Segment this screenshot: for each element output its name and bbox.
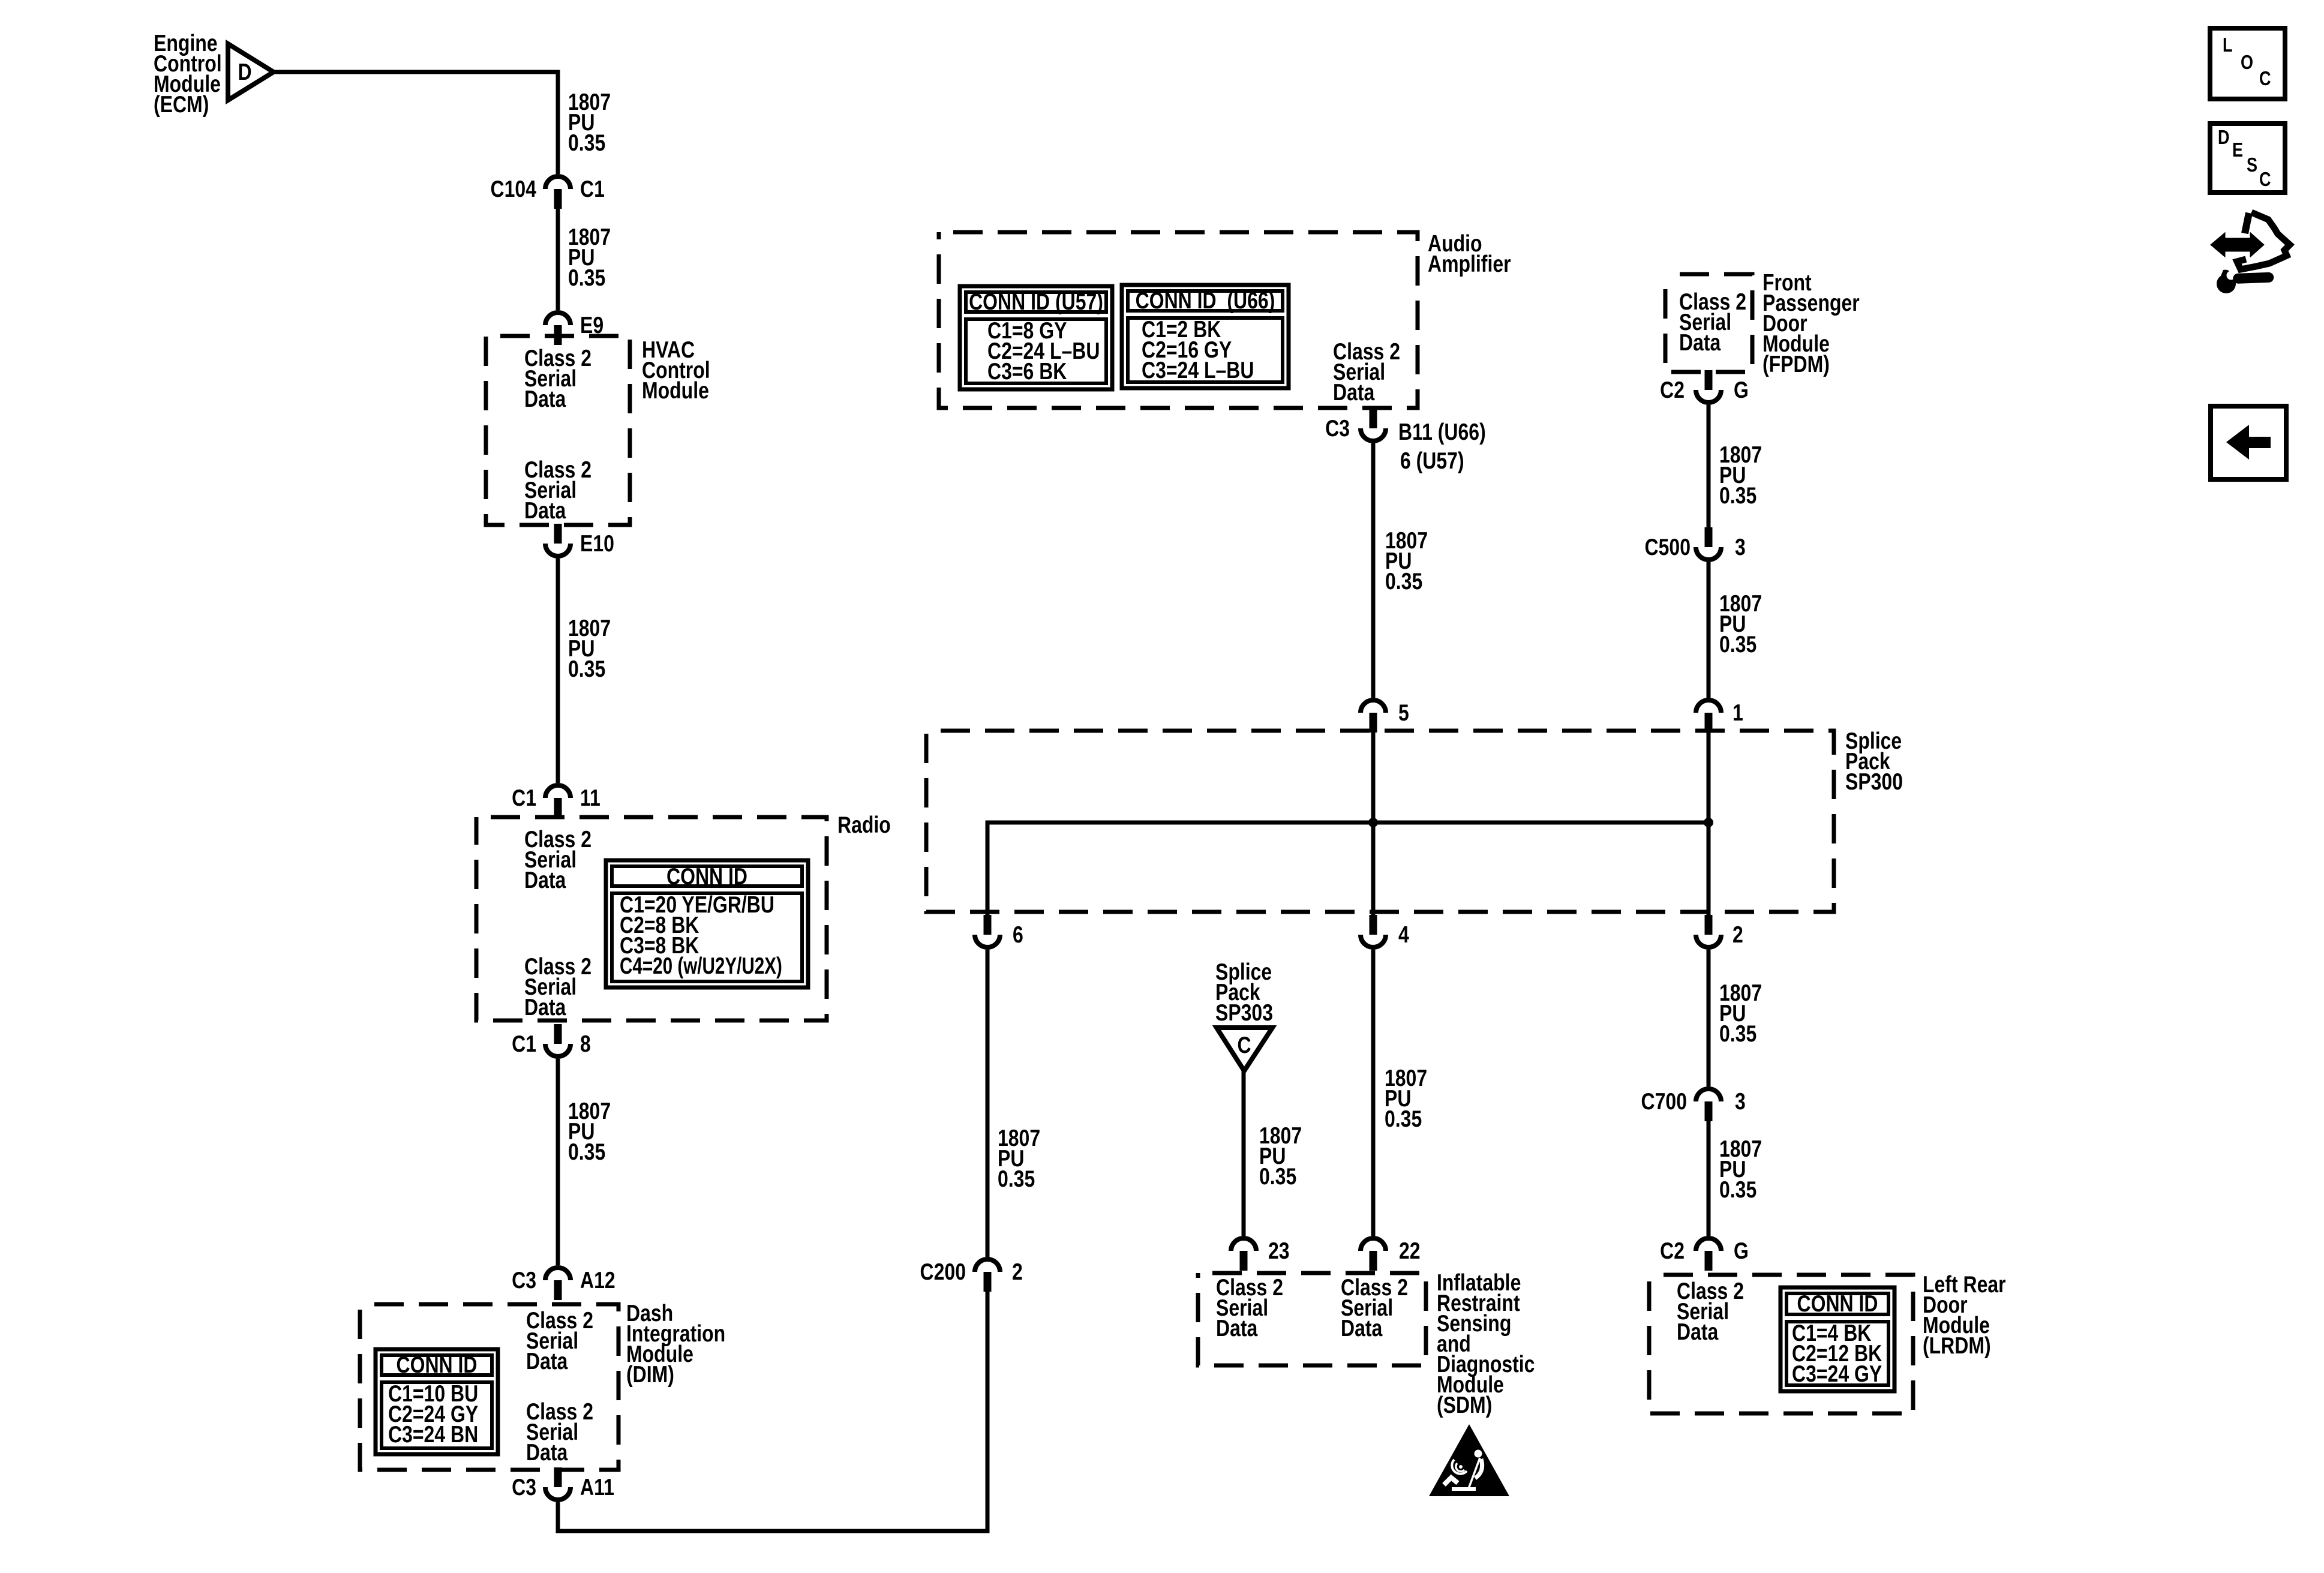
svg-text:5: 5 [1398,700,1409,726]
svg-text:CONN ID: CONN ID [397,1352,478,1378]
svg-text:C3=24 BN: C3=24 BN [388,1421,478,1448]
text wire value label 1807 PU 0.35 (ECM-C104) [568,89,611,156]
svg-text:Amplifier: Amplifier [1428,251,1511,277]
svg-text:CONN ID (U57): CONN ID (U57) [969,289,1103,315]
connector C500 pin 3 [1696,527,1721,560]
svg-text:1: 1 [1733,700,1743,726]
wire SP303 to SDM pin 23 [1242,1071,1246,1236]
connector FPDM C2 pin G [1696,370,1721,403]
text wire value label 1807 PU 0.35 (Amp-SP300) [1385,527,1428,595]
svg-text:Data: Data [1679,329,1721,356]
CONN ID table Radio CONN ID [606,860,808,987]
text HVAC Class 2 Serial Data (in) [524,345,591,412]
svg-text:0.35: 0.35 [1719,1020,1756,1047]
svg-text:C3: C3 [512,1267,536,1293]
pin label 2 [1012,1259,1023,1285]
CONN ID table LRDM CONN ID [1780,1287,1894,1391]
svg-text:L: L [2223,35,2233,56]
pin label 8 [580,1031,591,1057]
svg-text:Data: Data [524,497,566,524]
svg-text:C3=6 BK: C3=6 BK [987,358,1067,385]
connector SP300 pin 4 [1361,915,1386,947]
svg-text:C: C [2259,169,2271,191]
svg-text:0.35: 0.35 [1719,1176,1756,1203]
connector Radio C1 pin 11 [545,785,571,818]
DESC icon box [2210,124,2285,193]
pin label 23 [1268,1238,1290,1264]
module box Splice Pack SP300 (dashed) [926,731,1834,912]
svg-text:3: 3 [1735,1088,1746,1115]
svg-text:Data: Data [1341,1315,1383,1341]
svg-text:C700: C700 [1641,1088,1687,1115]
pin label 3 [1735,534,1746,560]
svg-text:A11: A11 [580,1474,614,1500]
svg-text:C1: C1 [580,176,605,202]
connector DIM C3 pin A11 [545,1467,571,1500]
svg-text:D: D [2218,127,2230,149]
text wire value label 1807 PU 0.35 (FPDM-C500) [1719,442,1762,509]
svg-text:2: 2 [1012,1259,1023,1285]
svg-text:C: C [2259,68,2271,90]
svg-text:3: 3 [1735,534,1746,560]
svg-text:E10: E10 [580,530,614,557]
pin label A11 [580,1474,614,1500]
pin label 1 [1733,700,1743,726]
back arrow icon box [2211,406,2286,479]
svg-text:Data: Data [524,994,566,1020]
svg-text:(FPDM): (FPDM) [1762,351,1830,377]
svg-text:C104: C104 [491,176,537,202]
text wire value label 1807 PU 0.35 (Radio-DIM) [568,1098,611,1165]
svg-text:0.35: 0.35 [568,130,605,156]
label C104 [491,176,537,202]
wire C200 to SP300 pin 6 [986,950,990,1257]
pin label G [1734,377,1749,403]
svg-text:0.35: 0.35 [1719,631,1756,658]
wire SP300 vertical 1-2 [1707,733,1711,915]
svg-text:0.35: 0.35 [568,1139,605,1165]
connector HVAC E10 [545,524,571,556]
svg-text:23: 23 [1268,1238,1290,1264]
text wire value label 1807 PU 0.35 (C200-SP300) [998,1125,1040,1192]
wire SP300 vertical 5-4 [1371,733,1376,915]
module box Dash Integration Module (DIM) (dashed) [360,1304,618,1470]
svg-text:G: G [1734,377,1749,403]
svg-text:0.35: 0.35 [568,265,605,291]
svg-text:0.35: 0.35 [1259,1163,1296,1190]
label C1 [512,1031,536,1057]
svg-text:C: C [1237,1032,1251,1058]
svg-text:CONN ID (U66): CONN ID (U66) [1136,287,1275,314]
wire C500 to SP300 pin 1 [1707,562,1711,698]
svg-text:SP300: SP300 [1845,769,1903,795]
connector DIM C3 pin A12 [545,1268,571,1300]
connector SDM pin 23 [1231,1238,1256,1271]
text SDM label [1437,1269,1535,1418]
wire DIM A11 to C200 (bottom run) [558,1292,987,1531]
pin label G [1734,1238,1749,1264]
svg-text:CONN ID: CONN ID [666,863,747,890]
module box Audio Amplifier (dashed) [939,232,1418,408]
wire SP300 pin4 to SDM pin 22 [1371,950,1376,1236]
connector HVAC E9 [545,313,571,345]
svg-text:B11 (U66): B11 (U66) [1398,419,1486,445]
CONN ID table Audio Amp CONN ID (U57) [960,286,1112,389]
connector SDM pin 22 [1361,1238,1386,1271]
svg-text:A12: A12 [580,1267,615,1293]
CONN ID table DIM CONN ID [376,1349,498,1454]
svg-text:Module: Module [642,377,709,404]
text SDM Class 2 Serial Data (left) [1216,1274,1283,1341]
pin label 2 [1733,921,1743,948]
svg-text:C2: C2 [1660,377,1685,403]
svg-text:C3=24 L–BU: C3=24 L–BU [1142,357,1254,383]
svg-text:S: S [2247,155,2257,176]
text HVAC Control Module label [642,337,710,404]
text Radio label [837,812,891,838]
svg-text:Data: Data [524,386,566,412]
module box HVAC Control Module (dashed) [486,336,630,525]
wire FPDM to C500 [1707,405,1711,527]
svg-text:C500: C500 [1645,534,1691,560]
svg-text:C3=24 GY: C3=24 GY [1792,1361,1882,1387]
wire SP300 internal bus [987,822,1709,915]
junction dot (bus / pin1 wire) [1704,818,1713,827]
svg-text:6: 6 [1013,921,1023,948]
wire E10 to C1/11 [556,559,560,783]
connector C104 pin C1 [545,176,571,209]
svg-text:C1: C1 [512,785,536,811]
junction dot (bus / pin5 wire) [1368,818,1378,827]
pin label A12 [580,1267,615,1293]
text Radio Class 2 Serial Data (out) [524,953,591,1020]
label C2 [1660,377,1685,403]
text wire value label 1807 PU 0.35 (C104-E9) [568,224,611,291]
connector SP300 pin 1 [1696,700,1721,733]
connector C700 pin 3 [1696,1089,1721,1121]
svg-text:(DIM): (DIM) [626,1361,674,1388]
svg-text:C1: C1 [512,1031,536,1057]
text Splice Pack SP303 label [1215,959,1273,1026]
connector SP300 pin 5 [1361,700,1386,733]
pin label 11 [580,785,600,811]
module box Radio (dashed) [476,817,827,1020]
text Audio Amplifier label [1428,230,1511,277]
svg-text:C3: C3 [512,1474,536,1500]
text DIM Class 2 Serial Data (in) [526,1307,593,1374]
svg-text:C200: C200 [920,1259,966,1285]
connector C200 pin 2 [975,1259,1000,1292]
LOC icon box [2210,28,2285,99]
pin label 22 [1399,1238,1421,1264]
text wire value label 1807 PU 0.35 (SP300-SDM) [1385,1065,1427,1132]
SRS airbag warning triangle icon [1429,1424,1509,1496]
svg-text:Data: Data [526,1348,568,1374]
svg-text:Data: Data [526,1439,568,1466]
svg-text:D: D [238,59,251,85]
svg-text:2: 2 [1733,921,1743,948]
text wire value label 1807 PU 0.35 (E10-Radio) [568,615,611,682]
svg-text:(ECM): (ECM) [154,91,209,118]
svg-text:0.35: 0.35 [1385,568,1422,595]
pin label E9 [580,312,603,338]
text wire value label 1807 PU 0.35 (SP303-SDM) [1259,1122,1302,1190]
connector Audio Amp C3 pin B11(U66)/6(U57) [1361,409,1386,441]
svg-text:C2: C2 [1660,1238,1685,1264]
svg-text:22: 22 [1399,1238,1421,1264]
connector SP300 pin 6 [975,915,1000,947]
text Audio Amp Class 2 Serial Data [1333,338,1400,406]
splice pack SP303 triangle C [1217,1028,1272,1071]
label C3 [512,1267,536,1293]
text Radio Class 2 Serial Data (in) [524,826,591,893]
text DIM Class 2 Serial Data (out) [526,1398,593,1466]
text SDM Class 2 Serial Data (right) [1341,1274,1408,1341]
wire C700 to LRDM [1707,1121,1711,1236]
text FPDM Class 2 Serial Data [1679,289,1746,356]
svg-text:4: 4 [1398,921,1409,948]
diagnostic pointer/wrench icon [2212,212,2290,293]
off-page reference triangle D (ECM) [228,44,274,100]
svg-text:C4=20 (w/U2Y/U2X): C4=20 (w/U2Y/U2X) [620,953,782,979]
text Splice Pack SP300 label [1845,728,1903,795]
text Engine Control Module (ECM) label [154,30,222,118]
text LRDM Class 2 Serial Data [1677,1278,1744,1345]
text DIM label [626,1300,725,1388]
connector LRDM C2 pin G [1696,1238,1721,1271]
label C500 [1645,534,1691,560]
wire C104 to E9 [556,209,560,310]
CONN ID table Audio Amp CONN ID (U66) [1122,285,1289,388]
text FPDM label [1762,269,1860,377]
pin label 6 [1013,921,1023,948]
module box Front Passenger Door Module (FPDM) (dashed) [1665,274,1752,372]
wire SP300 pin2 to C700 [1707,950,1711,1086]
text wire value label 1807 PU 0.35 (C500-SP300) [1719,590,1762,658]
svg-text:CONN ID: CONN ID [1797,1290,1878,1317]
svg-text:0.35: 0.35 [568,656,605,682]
svg-text:0.35: 0.35 [998,1166,1035,1192]
pin label B11 (U66) / 6 (U57) [1398,419,1486,474]
text wire value label 1807 PU 0.35 (SP300-C700) [1719,980,1762,1047]
label C3 [512,1474,536,1500]
svg-text:0.35: 0.35 [1719,482,1756,509]
svg-text:6 (U57): 6 (U57) [1400,448,1464,474]
pin label 5 [1398,700,1409,726]
svg-text:11: 11 [580,785,600,811]
svg-text:8: 8 [580,1031,591,1057]
svg-text:(LRDM): (LRDM) [1923,1332,1991,1359]
svg-text:Radio: Radio [837,812,891,838]
pin label 4 [1398,921,1409,948]
label C1 [512,785,536,811]
svg-text:SP303: SP303 [1215,999,1273,1026]
svg-text:C3: C3 [1325,415,1350,442]
svg-text:0.35: 0.35 [1385,1106,1422,1132]
svg-text:Data: Data [1333,379,1375,406]
svg-text:G: G [1734,1238,1749,1264]
pin label C1 [580,176,605,202]
label C3 [1325,415,1350,442]
module box Inflatable Restraint SDM (dashed) [1198,1273,1426,1365]
svg-text:(SDM): (SDM) [1437,1392,1492,1418]
text wire value label 1807 PU 0.35 (C700-LRDM) [1719,1136,1762,1203]
pin label E10 [580,530,614,557]
wire from ECM D to C104 [272,72,558,174]
connector SP300 pin 2 [1696,915,1721,947]
text HVAC Class 2 Serial Data (out) [524,457,591,524]
svg-text:Data: Data [524,867,566,893]
wire Radio to DIM [556,1059,560,1265]
module box Left Rear Door Module (LRDM) (dashed) [1649,1275,1913,1413]
label C700 [1641,1088,1687,1115]
wire Audio Amp to SP300 pin 5 [1371,443,1376,698]
svg-text:E: E [2232,140,2243,161]
text LRDM label [1923,1271,2006,1359]
connector Radio C1 pin 8 [545,1024,571,1056]
svg-text:O: O [2241,52,2253,74]
label C200 [920,1259,966,1285]
svg-text:Data: Data [1216,1315,1258,1341]
svg-text:Data: Data [1677,1319,1719,1345]
label C2 [1660,1238,1685,1264]
pin label 3 [1735,1088,1746,1115]
